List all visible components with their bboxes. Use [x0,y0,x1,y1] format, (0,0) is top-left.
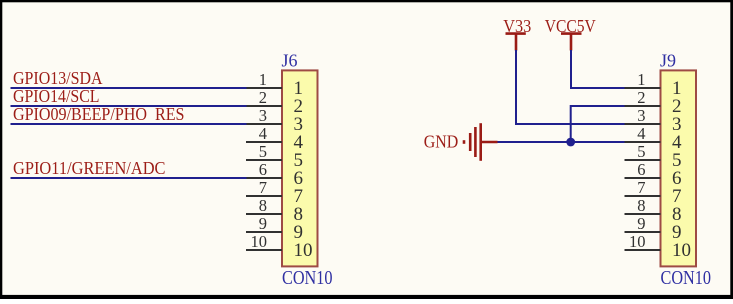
connector J6 body [282,70,318,266]
svg-text:9: 9 [259,214,267,233]
svg-text:GPIO14/SCL: GPIO14/SCL [13,86,100,106]
connector J9 body [661,70,697,266]
svg-text:5: 5 [259,142,267,161]
wire J9 pin 2 to GND net [571,106,625,142]
pin 2 of J6 [246,105,282,107]
svg-text:10: 10 [629,232,646,251]
svg-text:6: 6 [259,160,267,179]
pin 5 of J9 [625,159,661,161]
svg-text:10: 10 [672,240,691,261]
pin 6 of J6 [246,177,282,179]
pin 3 of J9 [625,123,661,125]
pin 9 of J9 [625,231,661,233]
svg-text:J9: J9 [660,51,676,71]
svg-text:10: 10 [294,240,313,261]
wire net GPIO14/SCL to J6 [11,105,247,107]
svg-text:3: 3 [259,106,267,125]
pin 1 of J6 [246,87,282,89]
svg-text:10: 10 [251,232,268,251]
pin 2 of J9 [625,105,661,107]
svg-text:6: 6 [637,160,645,179]
pin 8 of J6 [246,213,282,215]
svg-text:3: 3 [637,106,645,125]
svg-text:CON10: CON10 [282,267,333,289]
svg-text:GPIO11/GREEN/ADC: GPIO11/GREEN/ADC [13,158,166,178]
svg-text:7: 7 [637,178,645,197]
svg-text:2: 2 [637,88,645,107]
pin 3 of J6 [246,123,282,125]
frame border [0,0,733,2]
svg-text:8: 8 [637,196,645,215]
junction dot GND net [566,138,575,147]
svg-text:4: 4 [637,124,645,143]
pin 1 of J9 [625,87,661,89]
pin 4 of J6 [246,141,282,143]
svg-text:9: 9 [637,214,645,233]
wire V33 to J9 pin 3 [516,50,625,124]
svg-text:1: 1 [637,70,645,89]
svg-text:2: 2 [259,88,267,107]
svg-text:4: 4 [259,124,267,143]
pin 6 of J9 [625,177,661,179]
svg-text:GPIO09/BEEP/PHO RES: GPIO09/BEEP/PHO RES [13,104,185,124]
svg-text:CON10: CON10 [661,267,712,289]
svg-text:8: 8 [259,196,267,215]
pin 9 of J6 [246,231,282,233]
svg-text:J6: J6 [282,51,298,71]
wire VCC5V to J9 pin 1 [571,50,625,88]
pin 7 of J6 [246,195,282,197]
pin 4 of J9 [625,141,661,143]
pin 7 of J9 [625,195,661,197]
svg-text:5: 5 [637,142,645,161]
pin 5 of J6 [246,159,282,161]
wire net GPIO11/GREEN/ADC to J6 [11,177,247,179]
pin 10 of J9 [625,249,661,251]
wire net GPIO09/BEEP/PHO_RES to J6 [11,123,247,125]
svg-text:GPIO13/SDA: GPIO13/SDA [13,68,103,88]
svg-text:GND: GND [424,132,459,152]
svg-text:1: 1 [259,70,267,89]
pin 8 of J9 [625,213,661,215]
wire net GPIO13/SDA to J6 [11,87,247,89]
wire GND to J9 pin 4 [497,141,625,143]
svg-text:7: 7 [259,178,267,197]
power port GND [464,123,498,161]
pin 10 of J6 [246,249,282,251]
